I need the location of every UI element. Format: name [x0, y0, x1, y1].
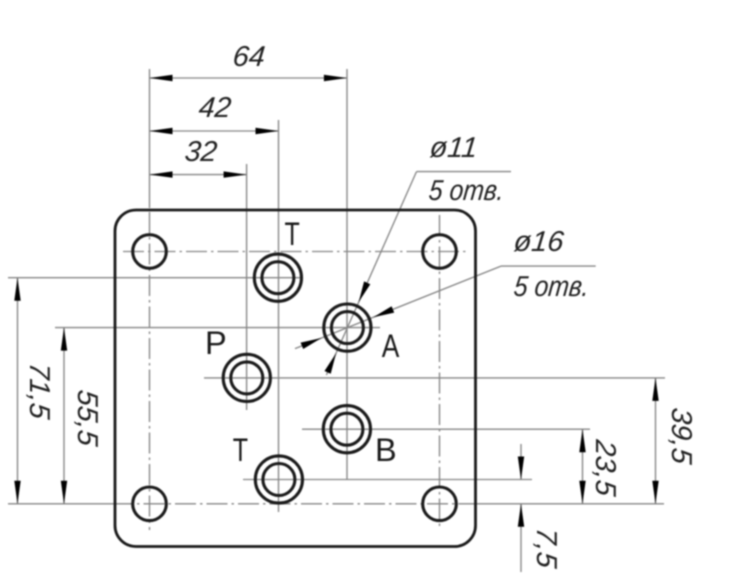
svg-text:23,5: 23,5 — [589, 437, 621, 498]
svg-text:39,5: 39,5 — [665, 406, 697, 466]
svg-text:5 отв.: 5 отв. — [427, 175, 505, 207]
svg-text:T: T — [233, 432, 248, 468]
svg-text:32: 32 — [183, 136, 218, 168]
svg-text:ø11: ø11 — [428, 132, 479, 164]
svg-text:P: P — [205, 325, 227, 361]
svg-text:B: B — [375, 432, 397, 468]
svg-text:T: T — [285, 216, 300, 252]
svg-text:55,5: 55,5 — [71, 388, 103, 448]
svg-text:7,5: 7,5 — [530, 526, 562, 570]
svg-text:64: 64 — [231, 41, 266, 73]
svg-text:42: 42 — [197, 92, 232, 124]
svg-text:5 отв.: 5 отв. — [512, 271, 590, 303]
svg-text:ø16: ø16 — [512, 226, 566, 258]
svg-text:A: A — [382, 328, 400, 364]
svg-text:71,5: 71,5 — [23, 361, 55, 421]
